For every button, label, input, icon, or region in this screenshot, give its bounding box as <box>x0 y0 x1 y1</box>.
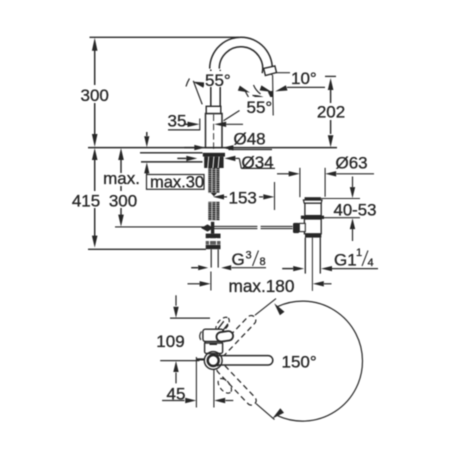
dashed handle position lower <box>216 376 235 395</box>
153 right extension line <box>274 182 276 210</box>
label 55deg left <box>204 71 233 87</box>
tick to swivel center <box>196 358 204 360</box>
spout gooseneck arc <box>210 37 273 75</box>
plan handle grip <box>216 331 234 343</box>
rod ball joint <box>201 224 214 231</box>
45 dimension arrows <box>162 400 184 402</box>
left 55 degree handle-tilt dimension <box>193 81 202 105</box>
dashed swivel position lower <box>215 362 258 407</box>
boxed label max.30 <box>147 175 205 190</box>
svg-text:202: 202 <box>317 103 345 122</box>
mounting washer below deck <box>203 153 225 157</box>
label 300 <box>79 85 111 103</box>
svg-text:10°: 10° <box>291 69 317 88</box>
waste upper body <box>305 203 321 215</box>
svg-text:max.180: max.180 <box>229 276 295 296</box>
svg-text:45: 45 <box>167 385 186 404</box>
mounting nut <box>204 157 223 168</box>
svg-text:40-53: 40-53 <box>334 201 377 220</box>
svg-text:300: 300 <box>81 86 109 105</box>
10 degree aerator angle: leader and arrows <box>276 72 290 74</box>
plan view: 109 upper reference line <box>170 317 210 319</box>
svg-text:8: 8 <box>260 256 266 268</box>
svg-text:415: 415 <box>72 192 100 211</box>
rod clamp housing <box>299 223 305 231</box>
label 202 <box>317 103 346 120</box>
swivel inner circle <box>208 355 219 366</box>
max.30 lower arrow <box>144 162 149 173</box>
riser tube lines <box>210 70 212 107</box>
plan handle left arc <box>200 332 202 341</box>
150 degree arc <box>277 301 362 421</box>
pop-up rod reference line <box>115 226 204 228</box>
threaded shank lower segment <box>208 202 219 221</box>
arc arrowhead upper <box>274 303 284 315</box>
threaded shank upper segment <box>208 168 219 193</box>
arc extension lower <box>256 404 275 420</box>
dimension 300 (spout height) vertical line <box>94 50 96 86</box>
faucet body <box>206 114 223 148</box>
svg-text:G1: G1 <box>334 251 357 270</box>
arc arrowhead lower <box>272 408 284 419</box>
top reference line (spout apex height) <box>90 36 240 38</box>
supply union block <box>206 234 221 250</box>
svg-text:109: 109 <box>156 332 184 351</box>
clamp block (black) <box>293 223 299 233</box>
label 415 <box>68 191 106 208</box>
shank rod tip <box>211 193 218 197</box>
flexible supply hoses <box>210 249 212 267</box>
svg-text:G: G <box>232 250 245 269</box>
svg-text:1: 1 <box>356 247 362 259</box>
dimension max.415 vertical line <box>92 148 98 160</box>
plan faucet body <box>205 342 223 354</box>
svg-text:35: 35 <box>168 112 187 131</box>
vertical extension below aerator <box>272 75 275 116</box>
svg-text:300: 300 <box>109 192 137 211</box>
swivel outer circle <box>204 352 222 370</box>
pop-up waste flange top (black) <box>305 197 321 200</box>
neck <box>206 106 221 113</box>
seal band (black) <box>301 216 324 219</box>
diameter 34 leader and label <box>236 157 240 159</box>
svg-text:55°: 55° <box>247 98 273 117</box>
washer underside line (max.30 lower ref) <box>141 161 203 163</box>
right 55 degree spout swivel dimension <box>224 111 240 121</box>
horizontal pop-up rod <box>214 225 258 227</box>
arc extension upper <box>255 299 276 316</box>
G3/8 arrows <box>198 265 208 270</box>
plan handle base <box>203 329 224 341</box>
body/handle boundary <box>205 342 222 344</box>
tailpipe <box>304 238 306 274</box>
plan view: spout axis reference line <box>160 360 199 362</box>
109 dimension arrows <box>175 295 177 306</box>
dimension max.300 vertical line <box>118 148 124 160</box>
diameter 63 dimension <box>277 173 289 175</box>
svg-text:3: 3 <box>246 250 252 262</box>
svg-text:150°: 150° <box>282 352 317 371</box>
40-53 arrows <box>352 177 354 188</box>
max.30 deck thickness: upper arrow <box>146 132 148 136</box>
svg-text:153: 153 <box>229 189 257 208</box>
svg-text:55°: 55° <box>205 71 231 90</box>
max.180 dimension <box>188 283 200 285</box>
svg-text:Ø48: Ø48 <box>234 130 266 149</box>
svg-text:Ø63: Ø63 <box>336 153 368 172</box>
svg-text:4: 4 <box>368 257 374 269</box>
waste lower body <box>304 219 321 234</box>
dashed handle position upper <box>213 315 232 334</box>
35 dimension arrows <box>199 119 201 131</box>
deck / countertop line <box>88 147 337 149</box>
body top tick (dark) <box>210 343 218 345</box>
deck underside line <box>140 152 203 154</box>
tailpipe centerline <box>311 238 313 291</box>
plan grip stub <box>218 321 224 329</box>
dashed swivel position upper <box>214 314 257 359</box>
label 55deg right <box>245 97 276 114</box>
dimension 153 line <box>213 194 224 199</box>
40-53 extension lines <box>321 198 360 200</box>
plan spout capsule <box>213 356 273 365</box>
svg-text:max.: max. <box>103 169 140 188</box>
45 dimension extension lines <box>195 357 197 408</box>
diameter 48 arrows at deck <box>194 145 205 150</box>
dimension 202 vertical <box>325 75 336 77</box>
svg-text:max.30: max.30 <box>150 173 204 191</box>
svg-text:Ø34: Ø34 <box>242 153 274 172</box>
lower seal band (black) <box>305 234 321 238</box>
body centerline <box>213 115 215 152</box>
diameter 34 arrows <box>186 156 197 161</box>
flange body <box>303 200 322 203</box>
G1 1/4 arrows <box>293 266 304 271</box>
aerator end segment of spout <box>264 66 277 76</box>
bottom reference line (hose ends) <box>88 248 206 250</box>
